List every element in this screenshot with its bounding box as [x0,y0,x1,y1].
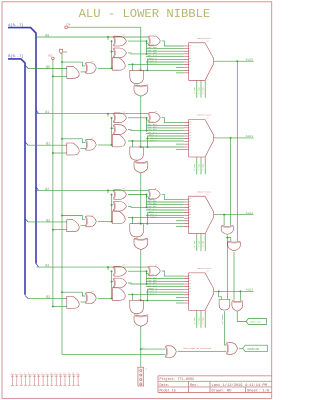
mux U3M body (74HC153) [189,273,214,311]
wire U3C out drop to carry AND [132,294,134,300]
svg-text:SEL_0: SEL_0 [193,164,196,171]
wire carry into slice 2 [140,173,142,224]
wire sum1 to mux [162,118,184,123]
bus entry B1 [25,142,28,145]
bus entry B2 [25,219,28,222]
and gate U0C [113,58,126,71]
wire select2 slice 0 [204,82,206,98]
wire ALU1 output [217,137,254,139]
junction carry0 b [146,69,148,71]
junction VCC rail slice 0 [52,75,54,77]
svg-text:10: 10 [189,122,191,124]
wire VCC rail vertical [52,60,54,307]
wire U2A out to sum xor [128,195,148,197]
xor gate U2A (A xor B) [113,190,115,200]
xor gate U0D (sum) [148,36,149,46]
svg-text:12: 12 [189,50,191,52]
wire U2C out drop to carry AND [132,218,134,224]
svg-text:10: 10 [189,275,191,277]
and gate U1E (B gate) [67,143,79,155]
bus entry A1 [36,110,39,114]
wire U1C out drop to carry AND [132,141,134,147]
svg-text:Project: TTL-6502: Project: TTL-6502 [160,377,195,382]
wire mux0 enable row [176,66,184,68]
wire carry2 to mux row6 [147,212,184,214]
svg-text:HALF_CARRY_OR_SOMETHING: HALF_CARRY_OR_SOMETHING [184,347,212,350]
wire carry2 riser [146,213,148,224]
svg-text:INV: INV [63,51,68,54]
xor gate U13 (overflow) [232,301,243,302]
wire ALU0 output [217,60,254,62]
wire mux2 row5 [146,209,184,211]
junction carry3 [140,299,142,301]
wire U1B out to mux [128,130,184,131]
wire INV to U2F [62,216,85,220]
svg-text:14: 14 [189,132,191,134]
wire mux1 row5 [146,132,184,134]
svg-text:A_PASS2: A_PASS2 [148,216,158,219]
svg-text:74HC157#MUX4: 74HC157#MUX4 [197,114,212,117]
svg-text:Drawn: RD: Drawn: RD [212,389,233,393]
wire U0F riser [111,41,113,68]
wire mux2 row7 [146,214,184,216]
wire carry0 riser [146,59,148,70]
svg-text:SEL_1: SEL_1 [197,317,200,324]
wire INV to U3F [62,292,85,296]
mux U1M left pin stubs [184,123,189,150]
wire U0A out riser [146,41,148,54]
junction U1A riser bottom [146,130,148,132]
wire sum2 to mux [162,194,184,199]
junction VCC rail slice 1 [52,152,54,154]
junction riser top slice 0 [111,40,113,42]
wire mux2 row3 [146,204,184,206]
junction riser top slice 3 [111,270,113,272]
wire U0F out [98,67,113,69]
svg-text:Model 15: Model 15 [160,388,176,393]
xor gate U1B [113,125,115,135]
wire mux0 row3 [146,50,184,52]
wire A3 drop to XOR gate [107,267,109,270]
and gate U2E (B gate) [67,220,79,232]
wire carry0 to mux row6 [147,58,184,60]
junction A2 [107,189,109,191]
wire U2B out to mux [128,206,184,207]
mux U0M select pin stubs [197,80,205,81]
svg-text:74HC157#MUX4: 74HC157#MUX4 [197,190,212,193]
mux U0M left pin stubs [184,46,189,73]
wire mux3 row5 [146,286,184,288]
wire VCC to U0E [53,75,67,77]
wire mux3 enable row [176,297,184,299]
wire riser to U0B input [112,51,114,53]
xor gate U3H (carry out) [134,315,148,316]
svg-text:SEL_2: SEL_2 [202,164,205,171]
wire mux0 row7 [146,61,184,63]
svg-text:ALU1: ALU1 [246,135,253,138]
and gate U1G (carry) [130,147,144,160]
wire to U14 upper input [141,348,166,350]
wire select2 slice 3 [204,312,206,328]
wire riser to U1B input [112,127,114,129]
wire mux1 row2 [146,124,184,126]
junction ALU3 output b [240,290,242,292]
mux U2M select pin stubs [197,234,205,235]
svg-text:14: 14 [189,209,191,211]
wire select0 slice 1 [196,158,198,174]
svg-text:11: 11 [189,124,191,126]
wire mux2 strobe row [176,225,184,227]
svg-text:11: 11 [189,278,191,280]
wire VCC to U3E [53,305,67,307]
wire select2 slice 1 [204,158,206,174]
xor gate U2H (carry out) [134,238,148,239]
wire carry1 riser [146,136,148,147]
mux U2M left pin stubs [184,199,189,226]
svg-text:17: 17 [189,294,191,296]
xor gate U2F (B invert) [85,216,86,227]
xor gate U14 (half carry) [165,346,166,358]
wire U0C out drop to carry AND [132,64,134,70]
wire U14 output [178,351,227,353]
wire U3A out riser [146,271,148,284]
svg-text:B3: B3 [46,295,50,299]
svg-text:16: 16 [189,291,191,293]
wire A2 drop to XOR gate [107,190,109,193]
wire ALU3 to U13 [240,291,242,300]
wire mux1 row3 [146,127,184,129]
wire U0B out to mux [128,53,184,54]
junction A3 [107,266,109,268]
wire INV rail vertical [62,53,165,355]
svg-text:11: 11 [189,47,191,49]
wire carry into slice 1 [140,96,142,147]
svg-text:Date:: Date: [160,384,170,388]
xor gate U1D (sum) [148,113,149,123]
hierarchical pin INV [59,49,62,53]
wire A1 row [37,113,149,115]
svg-text:16: 16 [189,214,191,216]
junction U3A riser bottom [146,283,148,285]
svg-text:A[0..7]: A[0..7] [8,23,23,28]
junction U2A riser bottom [146,206,148,208]
svg-text:16: 16 [189,61,191,63]
wire half carry from U3H [140,326,142,349]
wire U3C out to mux [128,293,184,295]
bus A[0..7] [8,28,36,264]
junction half carry [140,348,142,350]
wire mux0 row5 [146,56,184,58]
wire carry2 to mux [141,223,184,225]
svg-text:ALU - LOWER NIBBLE: ALU - LOWER NIBBLE [79,7,211,21]
wire U15 output [239,348,243,350]
wire U1A out riser [146,118,148,131]
junction carry1 b [146,146,148,148]
svg-text:12: 12 [189,280,191,282]
svg-text:15: 15 [189,212,191,214]
junction U2A out [146,194,148,196]
xor gate U3F (B invert) [85,293,86,304]
wire INV to U1F [62,139,85,143]
svg-text:A_PASS3: A_PASS3 [148,292,158,295]
svg-text:ALU0: ALU0 [246,58,253,61]
and gate U1C [113,134,126,147]
wire mux2 enable row [176,220,184,222]
wire U1F riser [111,118,113,145]
wire carry0 to mux [141,69,184,71]
junction INV rail slice 0 [61,61,63,63]
junction U1A out [146,117,148,119]
svg-text:15: 15 [189,135,191,137]
and gate U3G (carry) [130,300,144,313]
svg-text:SEL_2: SEL_2 [202,317,205,324]
wire select1 slice 1 [200,158,202,174]
mux U3M left pin stubs [184,276,189,303]
junction U0C out [132,63,134,65]
svg-text:A0: A0 [45,33,49,37]
wire mux1 row7 [146,138,184,140]
wire U3G out [136,314,138,315]
junction U0A out [146,40,148,42]
junction ALU0 output [236,60,238,62]
junction carry1 [140,146,142,148]
wire A0 row [37,36,149,38]
svg-text:VCC: VCC [48,55,53,58]
mux U3M output pin stub [214,290,218,292]
wire B2 row [28,221,67,223]
svg-text:SEL_0: SEL_0 [193,87,196,94]
global label OVERFLOW [243,345,268,351]
wire U2E out to U2F [81,224,86,226]
svg-text:A1: A1 [45,110,49,114]
junction U3C out [132,293,134,295]
junction riser mid slice 0 [111,51,113,53]
junction VCC rail slice 2 [52,229,54,231]
svg-text:9: 9 [46,371,47,374]
junction ALU2 output [223,214,225,216]
wire B3 row [28,298,67,300]
wire select0 slice 2 [196,235,198,251]
wire A0 drop to XOR gate [107,37,109,40]
wire U10 output [226,236,228,238]
svg-text:15: 15 [189,288,191,290]
wire select1 slice 0 [200,82,202,98]
wire INV to U0F [62,62,85,66]
mux U0M body (74HC153) [189,43,214,81]
title block [158,376,272,393]
xor gate U1A (A xor B) [113,113,115,123]
wire U0G out [136,84,138,85]
mux U1M output pin stub [214,137,218,139]
wire U2A out riser [146,195,148,208]
svg-text:12: 12 [189,203,191,205]
and gate U0G (carry) [130,70,144,83]
wire U2F riser [111,195,113,222]
svg-text:B[0..7]: B[0..7] [8,54,23,59]
junction ALU1 output [230,137,232,139]
junction U1F out [111,144,113,146]
svg-text:17: 17 [189,217,191,219]
svg-text:A_PASS0: A_PASS0 [148,62,158,65]
global label CARRY_OUT [246,319,267,325]
wire B1 row [28,144,67,146]
junction U0A riser bottom [146,53,148,55]
wire U3E out to U3F [81,301,86,303]
wire U1A out to sum xor [128,118,148,120]
wire mux1 enable row [176,143,184,145]
xor gate U0B [113,48,115,58]
svg-text:13: 13 [189,53,191,55]
svg-text:12: 12 [59,371,61,374]
svg-text:CARRY_N3: CARRY_N3 [221,314,224,325]
svg-text:OVERFLOW: OVERFLOW [248,348,260,351]
xor gate U0A (A xor B) [113,36,115,46]
wire U10 to U11 [227,238,231,241]
wire A2 row [37,189,149,191]
svg-text:ALU3: ALU3 [246,289,253,292]
wire mux0 row2 [146,48,184,50]
xor gate U3B [113,278,115,288]
junction U3F out [111,297,113,299]
wire select0 slice 3 [196,312,198,328]
junction VCC rail slice 3 [52,305,54,307]
svg-text:12: 12 [189,127,191,129]
svg-text:SEL_2: SEL_2 [202,87,205,94]
svg-text:A3: A3 [45,264,49,268]
junction U2F out [111,221,113,223]
xor gate U1F (B invert) [85,139,86,150]
wire riser to U3B input [112,281,114,283]
xor gate U2D (sum) [148,189,149,199]
xor gate U0F (B invert) [85,63,86,74]
wire carry into slice 0 [140,27,142,70]
junction riser top slice 2 [111,194,113,196]
svg-text:10: 10 [189,45,191,47]
hierarchical pin CIN [65,26,68,28]
svg-text:SEL_0: SEL_0 [193,241,196,248]
wire sum3 to mux [162,271,184,276]
wire mux1 strobe row [176,149,184,151]
junction riser mid slice 1 [111,127,113,129]
xor gate U11 (flag chain 2) [228,241,241,242]
junction A1 [107,113,109,115]
wire U3B out to mux [128,283,184,284]
junction U2C out [132,217,134,219]
svg-text:11: 11 [189,201,191,203]
xor gate U0H (carry out) [134,85,148,86]
mux U2M output pin stub [214,214,218,216]
junction carry0 [140,69,142,71]
svg-text:SEL_1: SEL_1 [197,164,200,171]
wire U10 drop to U12 [226,238,228,300]
wire to connector J1 [140,349,142,367]
svg-text:Sheet: 1/8: Sheet: 1/8 [247,388,269,393]
wire sum0 to mux [162,41,184,46]
svg-text:A_PASS1: A_PASS1 [148,139,158,142]
svg-text:SEL_2: SEL_2 [202,241,205,248]
svg-text:14: 14 [189,286,191,288]
wire A3 row [37,266,149,268]
and gate U3E (B gate) [67,296,79,308]
junction riser top slice 1 [111,117,113,119]
svg-text:74HC157#MUX4: 74HC157#MUX4 [197,37,212,40]
svg-text:B2: B2 [46,218,50,222]
svg-text:13: 13 [189,206,191,208]
wire carry3 riser [146,289,148,300]
wire ALU2 drop [223,215,225,226]
wire U0C out to mux [128,63,184,65]
and gate U2G (carry) [130,224,144,237]
bus B[0..7] [8,59,25,295]
junction carry2 b [146,223,148,225]
wire VCC to U2E [53,229,67,231]
wire U1E out to U1F [81,148,86,150]
svg-text:Last 1/12/2019 4:11:14 PM: Last 1/12/2019 4:11:14 PM [212,383,267,388]
svg-text:B1: B1 [46,142,50,146]
wire U3A out to sum xor [128,271,148,273]
junction U10 output [226,237,228,239]
svg-text:A2: A2 [45,187,49,191]
mux U0M output pin stub [214,60,218,62]
xor gate U15 (overflow out) [226,343,227,355]
wire select2 slice 2 [204,235,206,251]
wire select1 slice 2 [200,235,202,251]
xor gate U3A (A xor B) [113,266,115,276]
wire mux0 strobe row [176,72,184,74]
wire carry1 to mux [141,146,184,148]
junction U0F out [111,67,113,69]
junction INV rail slice 1 [61,138,63,140]
wire mux2 row2 [146,201,184,203]
svg-text:17: 17 [189,64,191,66]
mux U3M select pin stubs [197,310,205,311]
junction ALU3 output a [218,290,220,292]
mux U1M body (74HC153) [189,120,214,158]
xor gate U2B [113,201,115,211]
svg-text:74HC157#MUX4: 74HC157#MUX4 [197,267,212,270]
wire riser to U2B input [112,204,114,206]
svg-text:17: 17 [189,140,191,142]
wire carry3 to mux row6 [147,288,184,290]
wire mux3 strobe row [176,302,184,304]
bus entry B3 [25,295,28,298]
svg-text:CIN: CIN [66,24,71,27]
connector J1 [138,367,144,386]
wire U2F out [98,221,113,223]
junction INV rail slice 2 [61,215,63,217]
wire mux3 row7 [146,291,184,293]
wire carry into slice 3 [140,249,142,300]
svg-text:ALU2: ALU2 [246,212,253,215]
wire U3F riser [111,271,113,298]
svg-text:SEL_1: SEL_1 [197,241,200,248]
wire mux3 row2 [146,278,184,280]
svg-text:CARRY_OUT: CARRY_OUT [249,321,262,324]
wire U1C out to mux [128,140,184,142]
bus entry B0 [25,65,28,68]
svg-text:16: 16 [189,138,191,140]
svg-text:10: 10 [189,198,191,200]
mux U1M select pin stubs [197,157,205,158]
wire ALU2 output [217,214,254,216]
and gate U12 (carry msb) [219,299,230,310]
wire U3F out [98,297,113,299]
wire ALU3 output [217,290,254,292]
wire U1F out [98,144,113,146]
wire U2C out to mux [128,217,184,219]
wire U12 output drop to U15 [225,311,227,345]
svg-text:7: 7 [37,371,38,374]
